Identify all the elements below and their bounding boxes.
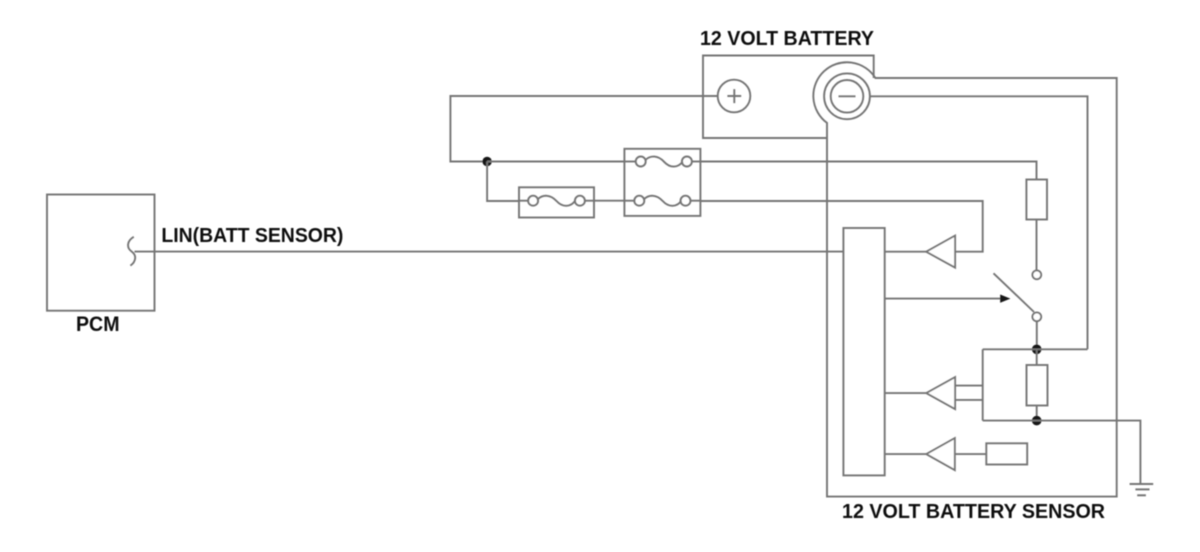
wire U3 output to load resistor (955, 453, 987, 455)
op-amp U3 (885, 438, 955, 470)
wire F2 upper output to resistor R1 (700, 162, 1036, 180)
LIN interface block (843, 228, 884, 475)
wire node A rail (983, 348, 1088, 350)
PCM pin squiggle (128, 237, 135, 266)
node battery feed junction (482, 157, 491, 166)
resistor R1 (1026, 180, 1047, 220)
svg-text:LIN(BATT SENSOR): LIN(BATT SENSOR) (161, 224, 343, 247)
wire node A to R2 (1036, 349, 1038, 365)
battery negative terminal (824, 73, 870, 119)
wire R2 to node B (1036, 406, 1038, 421)
svg-text:PCM: PCM (76, 313, 120, 336)
node B junction (1032, 416, 1042, 426)
wire switch control with arrowhead (885, 295, 1011, 303)
wire F1 to F2 (594, 200, 624, 202)
battery B1 outline (703, 56, 874, 139)
wire U1 output to fuse F2 lower rail (700, 201, 982, 252)
node A junction (1032, 345, 1042, 355)
wire junction drop to fuse F1 (487, 162, 519, 202)
fuse block F2 (624, 149, 700, 216)
wire R1 to switch contact (1036, 220, 1038, 271)
fuse F1 (519, 187, 594, 217)
battery positive terminal (718, 80, 751, 113)
ground (1130, 484, 1154, 495)
PCM module box (47, 195, 155, 311)
op-amp U2 (885, 377, 955, 409)
wire amp U2 sense stub lower (955, 399, 983, 401)
wire negative terminal sense line (870, 96, 1088, 349)
op-amp U1 (885, 236, 955, 268)
switch S1 (994, 270, 1042, 321)
load resistor block (986, 443, 1027, 464)
wire amp U2 sense stub upper (955, 385, 983, 387)
wire switch to node A (1036, 321, 1038, 349)
wire battery positive feed (450, 96, 717, 162)
resistor R2 shunt (1027, 365, 1048, 406)
wire node B rail to ground drop (983, 421, 1141, 484)
wire sense tap vertical (982, 349, 984, 420)
wire junction to fuse block F2 upper (487, 161, 624, 163)
svg-text:12 VOLT BATTERY: 12 VOLT BATTERY (700, 27, 874, 50)
wire LIN from PCM to sensor block (135, 251, 844, 253)
battery sensor clamp and enclosure outline (813, 62, 1116, 496)
svg-text:12 VOLT BATTERY SENSOR: 12 VOLT BATTERY SENSOR (842, 500, 1105, 523)
